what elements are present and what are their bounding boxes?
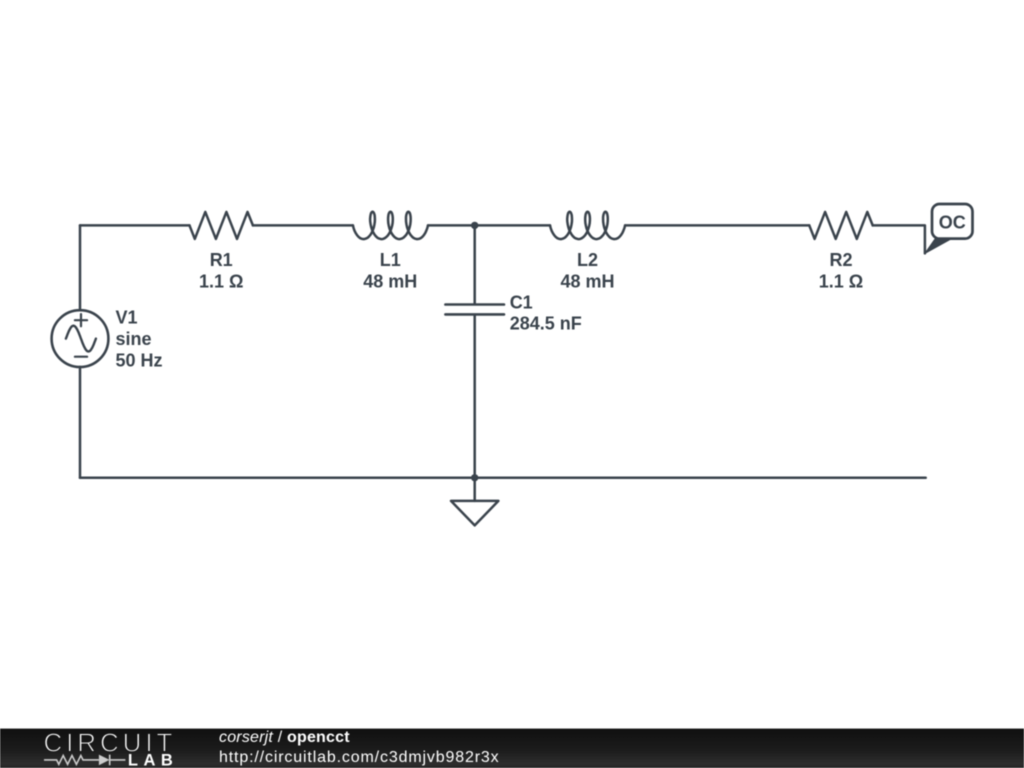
svg-text:C1: C1 [510,292,533,312]
svg-text:http://circuitlab.com/c3dmjvb9: http://circuitlab.com/c3dmjvb982r3x [219,749,500,766]
capacitor C1 [445,305,504,315]
wire L1 to node A [428,224,475,227]
svg-text:L1: L1 [380,250,401,270]
svg-text:corserjt / opencct: corserjt / opencct [219,729,350,746]
wire R1 to L1 [253,224,353,227]
wire node A to L2 [475,224,550,227]
svg-text:284.5 nF: 284.5 nF [510,313,582,333]
label C1 284.5 nF [510,292,582,333]
svg-text:R1: R1 [210,250,233,270]
voltage source V1 [52,310,109,367]
CircuitLab logo resistor-diode squiggle [44,755,125,766]
svg-text:1.1 Ω: 1.1 Ω [199,271,243,291]
bottom rail wire [80,477,926,480]
wire V1 top to rail [79,225,82,310]
resistor R1 [190,212,253,239]
ground [451,478,498,526]
node junction dot (bottom, ground) [471,474,478,481]
label V1 sine 50 Hz [116,307,163,370]
svg-text:L2: L2 [577,250,598,270]
svg-text:50 Hz: 50 Hz [116,350,163,370]
wire L2 to R2 [625,224,809,227]
wire top-left horizontal (V1 to R1) [80,224,190,227]
inductor L2 [550,212,625,239]
wire V1 bottom to bottom rail [79,367,82,478]
svg-text:R2: R2 [829,250,852,270]
OC flag bubble [925,204,973,253]
svg-text:sine: sine [116,329,152,349]
svg-text:48 mH: 48 mH [363,271,417,291]
wire R2 to OC flag [873,225,925,253]
resistor R2 [809,212,872,239]
node A junction dot (top) [471,222,478,229]
svg-text:48 mH: 48 mH [560,271,614,291]
svg-text:1.1 Ω: 1.1 Ω [819,271,863,291]
svg-text:OC: OC [939,213,966,233]
inductor L1 [353,212,428,239]
svg-text:V1: V1 [116,307,138,327]
capacitor C1 lead top [473,225,476,303]
capacitor C1 lead bottom [473,316,476,478]
svg-text:LAB: LAB [128,752,178,768]
